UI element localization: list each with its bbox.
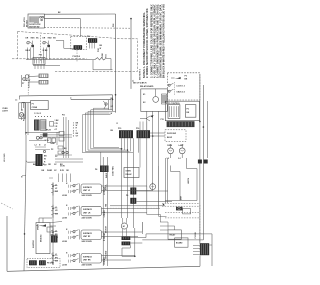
svg-text:FUSE: FUSE <box>102 52 104 58</box>
svg-text:L1: L1 <box>44 145 46 147</box>
svg-text:240V 2100W: 240V 2100W <box>82 194 92 197</box>
svg-text:BK: BK <box>100 45 103 47</box>
svg-text:GY: GY <box>44 165 47 167</box>
svg-text:K2: K2 <box>143 102 145 104</box>
svg-text:P1: P1 <box>32 104 34 106</box>
svg-text:N: N <box>66 229 68 231</box>
svg-text:R: R <box>117 123 119 125</box>
svg-text:240V 2100W: 240V 2100W <box>82 264 92 267</box>
svg-text:3 4: 3 4 <box>178 157 180 160</box>
svg-text:RELAY: RELAY <box>170 234 177 237</box>
svg-text:BU: BU <box>64 148 67 150</box>
svg-text:LR: LR <box>55 210 58 212</box>
svg-text:GAS V: GAS V <box>25 79 32 82</box>
svg-text:N: N <box>66 183 68 185</box>
svg-text:P24: P24 <box>112 24 115 27</box>
svg-text:CONV FAN: CONV FAN <box>112 166 115 176</box>
svg-text:P9: P9 <box>185 76 187 78</box>
svg-text:GY: GY <box>54 170 57 172</box>
svg-text:LATCH: LATCH <box>187 177 190 184</box>
svg-text:GY: GY <box>76 136 79 138</box>
svg-text:SPARK: SPARK <box>37 223 40 230</box>
svg-text:P5: P5 <box>187 109 189 111</box>
svg-text:DR: DR <box>26 38 29 40</box>
svg-text:MODULE: MODULE <box>41 234 43 242</box>
svg-text:SW: SW <box>55 191 58 193</box>
svg-text:W-BK: W-BK <box>43 50 49 52</box>
svg-text:GY: GY <box>55 156 58 158</box>
svg-text:1 2 3 4 5: 1 2 3 4 5 <box>34 112 41 115</box>
svg-text:BK-W: BK-W <box>167 137 172 139</box>
svg-text:1 2: 1 2 <box>167 158 169 160</box>
svg-text:LOCK 1 2: LOCK 1 2 <box>177 86 185 88</box>
svg-text:P10: P10 <box>39 55 42 57</box>
svg-text:BK W-R: BK W-R <box>27 20 29 27</box>
svg-text:L2 BK: L2 BK <box>62 265 68 267</box>
svg-text:BK-R: BK-R <box>26 50 31 52</box>
svg-text:P16: P16 <box>136 128 139 130</box>
svg-text:N: N <box>39 145 41 147</box>
svg-text:SURFACE: SURFACE <box>83 255 93 258</box>
svg-text:NC: NC <box>36 38 39 40</box>
svg-text:BK: BK <box>42 170 45 172</box>
svg-text:UNLK 3 4: UNLK 3 4 <box>177 91 186 94</box>
svg-text:BOARD: BOARD <box>176 242 183 245</box>
svg-text:UNIT LF: UNIT LF <box>83 190 91 192</box>
svg-text:N: N <box>66 205 68 207</box>
svg-text:L2 BK: L2 BK <box>62 241 68 243</box>
svg-text:BK: BK <box>187 112 190 114</box>
svg-text:BK-BLACK W-WHITE R-RED Y-YELLO: BK-BLACK W-WHITE R-RED Y-YELLOW GY-GRAY … <box>163 4 166 78</box>
svg-text:N: N <box>66 252 68 254</box>
svg-text:P15: P15 <box>118 128 121 130</box>
svg-text:BK GY W-BK R: BK GY W-BK R <box>133 83 147 85</box>
svg-text:SEE NOTE 3: SEE NOTE 3 <box>140 69 142 80</box>
svg-text:6: 6 <box>73 136 74 138</box>
svg-text:1 BK: 1 BK <box>55 120 60 122</box>
svg-text:P1-2 BK: P1-2 BK <box>23 113 25 121</box>
svg-text:TCO: TCO <box>105 54 107 58</box>
svg-text:4 Y: 4 Y <box>55 128 58 131</box>
svg-text:L2 BK: L2 BK <box>62 217 68 219</box>
svg-text:P11: P11 <box>62 115 65 117</box>
svg-text:P12 BK: P12 BK <box>195 231 197 238</box>
svg-text:BU: BU <box>111 130 114 132</box>
svg-text:OVEN: OVEN <box>167 145 173 147</box>
svg-text:BK: BK <box>185 79 188 81</box>
svg-text:N: N <box>21 177 23 179</box>
svg-text:LIGHT: LIGHT <box>2 110 8 112</box>
svg-text:SW1: SW1 <box>31 38 35 40</box>
svg-text:L2 N GND: L2 N GND <box>4 153 6 162</box>
svg-text:P6: P6 <box>126 195 128 197</box>
svg-text:3 R: 3 R <box>55 126 58 128</box>
svg-text:K1: K1 <box>143 94 145 96</box>
svg-text:W: W <box>100 48 102 50</box>
svg-text:W-BR: W-BR <box>47 170 53 172</box>
svg-text:UNIT RR: UNIT RR <box>83 260 91 262</box>
svg-text:SURFACE: SURFACE <box>83 186 93 189</box>
svg-text:R-W: R-W <box>60 170 64 172</box>
svg-text:M: M <box>123 226 125 228</box>
svg-text:SURFACE: SURFACE <box>83 232 93 235</box>
svg-text:GY: GY <box>54 164 57 166</box>
svg-text:OVEN: OVEN <box>126 171 132 173</box>
svg-text:SW: SW <box>55 261 58 263</box>
svg-text:RELAY: RELAY <box>126 173 133 176</box>
svg-text:W: W <box>111 113 113 115</box>
svg-text:P18 CLK: P18 CLK <box>73 56 81 58</box>
svg-text:OR: OR <box>48 164 51 166</box>
svg-text:2. WIRING SHOWN WITH DOOR CLOS: 2. WIRING SHOWN WITH DOOR CLOSED, SWITCH… <box>146 8 149 78</box>
svg-text:DOOR SW: DOOR SW <box>167 133 176 135</box>
svg-text:N BK: N BK <box>51 143 56 145</box>
svg-text:P4: P4 <box>95 168 98 171</box>
svg-text:IGNITOR: IGNITOR <box>33 240 35 248</box>
svg-text:DR: DR <box>43 38 46 40</box>
svg-text:BK-W: BK-W <box>46 130 51 132</box>
svg-text:RELAY BOARD: RELAY BOARD <box>140 85 154 88</box>
svg-text:L2: L2 <box>35 145 37 147</box>
svg-text:P13: P13 <box>87 36 90 38</box>
svg-text:240V 2100W: 240V 2100W <box>82 216 92 219</box>
svg-text:NO: NO <box>53 38 56 40</box>
svg-text:OR: OR <box>66 170 69 172</box>
svg-text:L1: L1 <box>15 99 17 101</box>
svg-text:240V 2100W: 240V 2100W <box>82 240 92 243</box>
svg-text:BK: BK <box>44 156 47 158</box>
svg-text:L2 BK: L2 BK <box>62 195 68 197</box>
svg-text:UNIT RF: UNIT RF <box>83 236 91 238</box>
svg-text:2 W: 2 W <box>55 123 58 125</box>
svg-text:W: W <box>44 159 46 161</box>
svg-text:MOTOR SW: MOTOR SW <box>29 27 39 29</box>
svg-text:P7: P7 <box>22 83 24 85</box>
svg-text:SURFACE: SURFACE <box>83 208 93 211</box>
svg-text:LF: LF <box>55 188 58 190</box>
svg-text:4: 4 <box>73 129 74 132</box>
svg-text:GY: GY <box>111 106 114 108</box>
svg-text:P8 GND: P8 GND <box>47 263 55 265</box>
svg-text:W: W <box>38 164 40 166</box>
svg-text:SW: SW <box>55 213 58 215</box>
svg-text:SW2: SW2 <box>48 38 52 40</box>
svg-text:P19: P19 <box>161 119 164 121</box>
svg-text:P2: P2 <box>51 149 53 151</box>
svg-text:MTR: MTR <box>181 195 183 200</box>
svg-text:LAMP: LAMP <box>179 144 185 147</box>
svg-text:CONN: CONN <box>32 107 38 109</box>
svg-text:UNIT LR: UNIT LR <box>83 212 91 214</box>
